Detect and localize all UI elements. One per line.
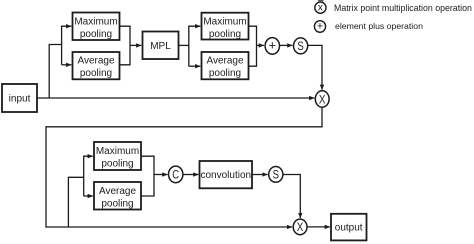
Maximum pooling box 2: [202, 13, 249, 40]
svg-text:pooling: pooling: [80, 29, 112, 40]
arrow multiply to output box: [307, 226, 330, 228]
convolution box: [200, 161, 253, 188]
legend plus circle: [314, 21, 325, 33]
wire stub into bottom Average pooling: [84, 195, 93, 197]
sigmoid S node top: [294, 38, 308, 54]
Maximum pooling box bottom: [94, 142, 141, 170]
MPL box: [143, 32, 179, 60]
svg-text:pooling: pooling: [209, 68, 241, 79]
wire S to top multiply node: [308, 45, 322, 89]
Maximum pooling box 1: [73, 13, 120, 41]
Average pooling box 1: [73, 52, 120, 79]
arrow plus to sigmoid S: [280, 44, 293, 46]
svg-text:Average: Average: [99, 186, 137, 197]
arrow convolution to sigmoid S bottom: [252, 174, 268, 176]
svg-text:output: output: [335, 223, 363, 234]
wire branch up to bottom pooling boxes: [68, 177, 83, 227]
arrow C to convolution: [183, 174, 199, 176]
wire S bottom to bottom multiply node: [283, 175, 300, 219]
svg-text:X: X: [297, 220, 304, 234]
input box: [2, 84, 37, 112]
svg-text:pooling: pooling: [209, 29, 241, 40]
svg-text:MPL: MPL: [150, 41, 171, 52]
wire merge bracket right of bottom boxes: [141, 156, 154, 196]
svg-text:Maximum: Maximum: [203, 16, 246, 27]
wire stub into Average pooling box 1: [62, 64, 72, 66]
arrow into concat node: [154, 174, 167, 176]
svg-text:S: S: [273, 168, 279, 182]
Average pooling box 2: [202, 52, 249, 79]
wire merge bracket right of boxes 3-4: [249, 26, 257, 66]
arrow into plus node: [257, 44, 264, 46]
svg-text:X: X: [319, 92, 326, 106]
svg-text:C: C: [172, 168, 179, 182]
svg-text:input: input: [9, 94, 31, 105]
plus node circle: [265, 38, 279, 55]
svg-text:convolution: convolution: [201, 170, 252, 181]
svg-text:x: x: [318, 2, 323, 13]
bottom multiply node circle: [293, 219, 307, 235]
svg-text:pooling: pooling: [101, 198, 133, 209]
svg-text:pooling: pooling: [80, 68, 112, 79]
svg-text:+: +: [269, 37, 277, 52]
top multiply node circle: [315, 91, 329, 107]
svg-text:Average: Average: [206, 56, 244, 67]
wire down from top multiply to lower stage: [46, 107, 322, 227]
svg-text:+: +: [317, 20, 323, 32]
Average pooling box bottom: [94, 182, 141, 210]
svg-text:Matrix point multiplication op: Matrix point multiplication operation: [334, 3, 472, 13]
wire bracket into top-left pooling boxes: [62, 26, 72, 65]
wire merge bracket right of boxes 1-2: [120, 26, 131, 65]
svg-text:Average: Average: [77, 56, 115, 67]
svg-text:pooling: pooling: [101, 159, 133, 170]
wire input to top multiply node: [37, 97, 314, 99]
svg-text:element plus operation: element plus operation: [335, 21, 423, 31]
cropped artifact blob top edge: [318, 0, 324, 2]
wire bracket into top-right pooling boxes: [189, 26, 201, 66]
sigmoid S node bottom: [269, 167, 283, 183]
svg-text:Maximum: Maximum: [74, 16, 117, 27]
concat C node circle: [169, 166, 183, 183]
wire branch up from input line: [49, 45, 61, 99]
arrow into MPL: [130, 44, 141, 46]
wire MPL output split: [179, 44, 189, 46]
legend multiply circle: [315, 2, 326, 13]
wire bracket into bottom pooling boxes: [84, 156, 93, 196]
output box: [331, 214, 367, 241]
wire stub into Average pooling box 2: [189, 65, 201, 67]
svg-text:S: S: [297, 39, 303, 53]
svg-text:Maximum: Maximum: [96, 146, 139, 157]
